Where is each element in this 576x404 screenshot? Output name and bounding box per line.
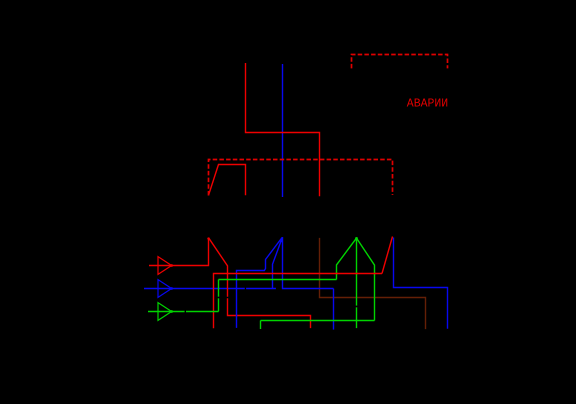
transistor V2 blue valve triangle — [158, 280, 173, 298]
wire blue drop at x=333.5 — [333, 289, 335, 330]
transistor V1 red valve triangle — [158, 257, 173, 275]
wire red riser top — [246, 63, 320, 196]
node red trapezoid outline — [209, 165, 246, 196]
wire blue patch over red at 236.5,315.5 — [236, 314, 238, 316]
wire red line from valve V1 with peak arrow — [149, 237, 311, 328]
wire green bus from valve V3 to big arrow — [148, 238, 357, 311]
node red arrow peak — [209, 238, 228, 297]
wire blue right elbow — [394, 238, 448, 329]
wire brown pipe riser and run — [320, 238, 426, 329]
node crossing patches (draw-order fixups) — [335, 273, 375, 275]
node dashed red alarm bracket — [352, 55, 448, 69]
wire blue vertical feeder — [282, 64, 284, 197]
node green big arrow right slope and return — [261, 237, 375, 329]
wire red dashed interlock line — [209, 160, 393, 196]
node blue arrow with pole — [237, 237, 284, 328]
svg-text:АВАРИИ: АВАРИИ — [407, 97, 448, 110]
wire red diagonal to riser — [382, 237, 393, 274]
wire blue horizontal bus from valve V2 — [144, 288, 334, 290]
transistor V3 green valve triangle — [158, 303, 173, 321]
wire red main horizontal bus — [214, 237, 393, 329]
wire green center pole — [356, 238, 358, 328]
